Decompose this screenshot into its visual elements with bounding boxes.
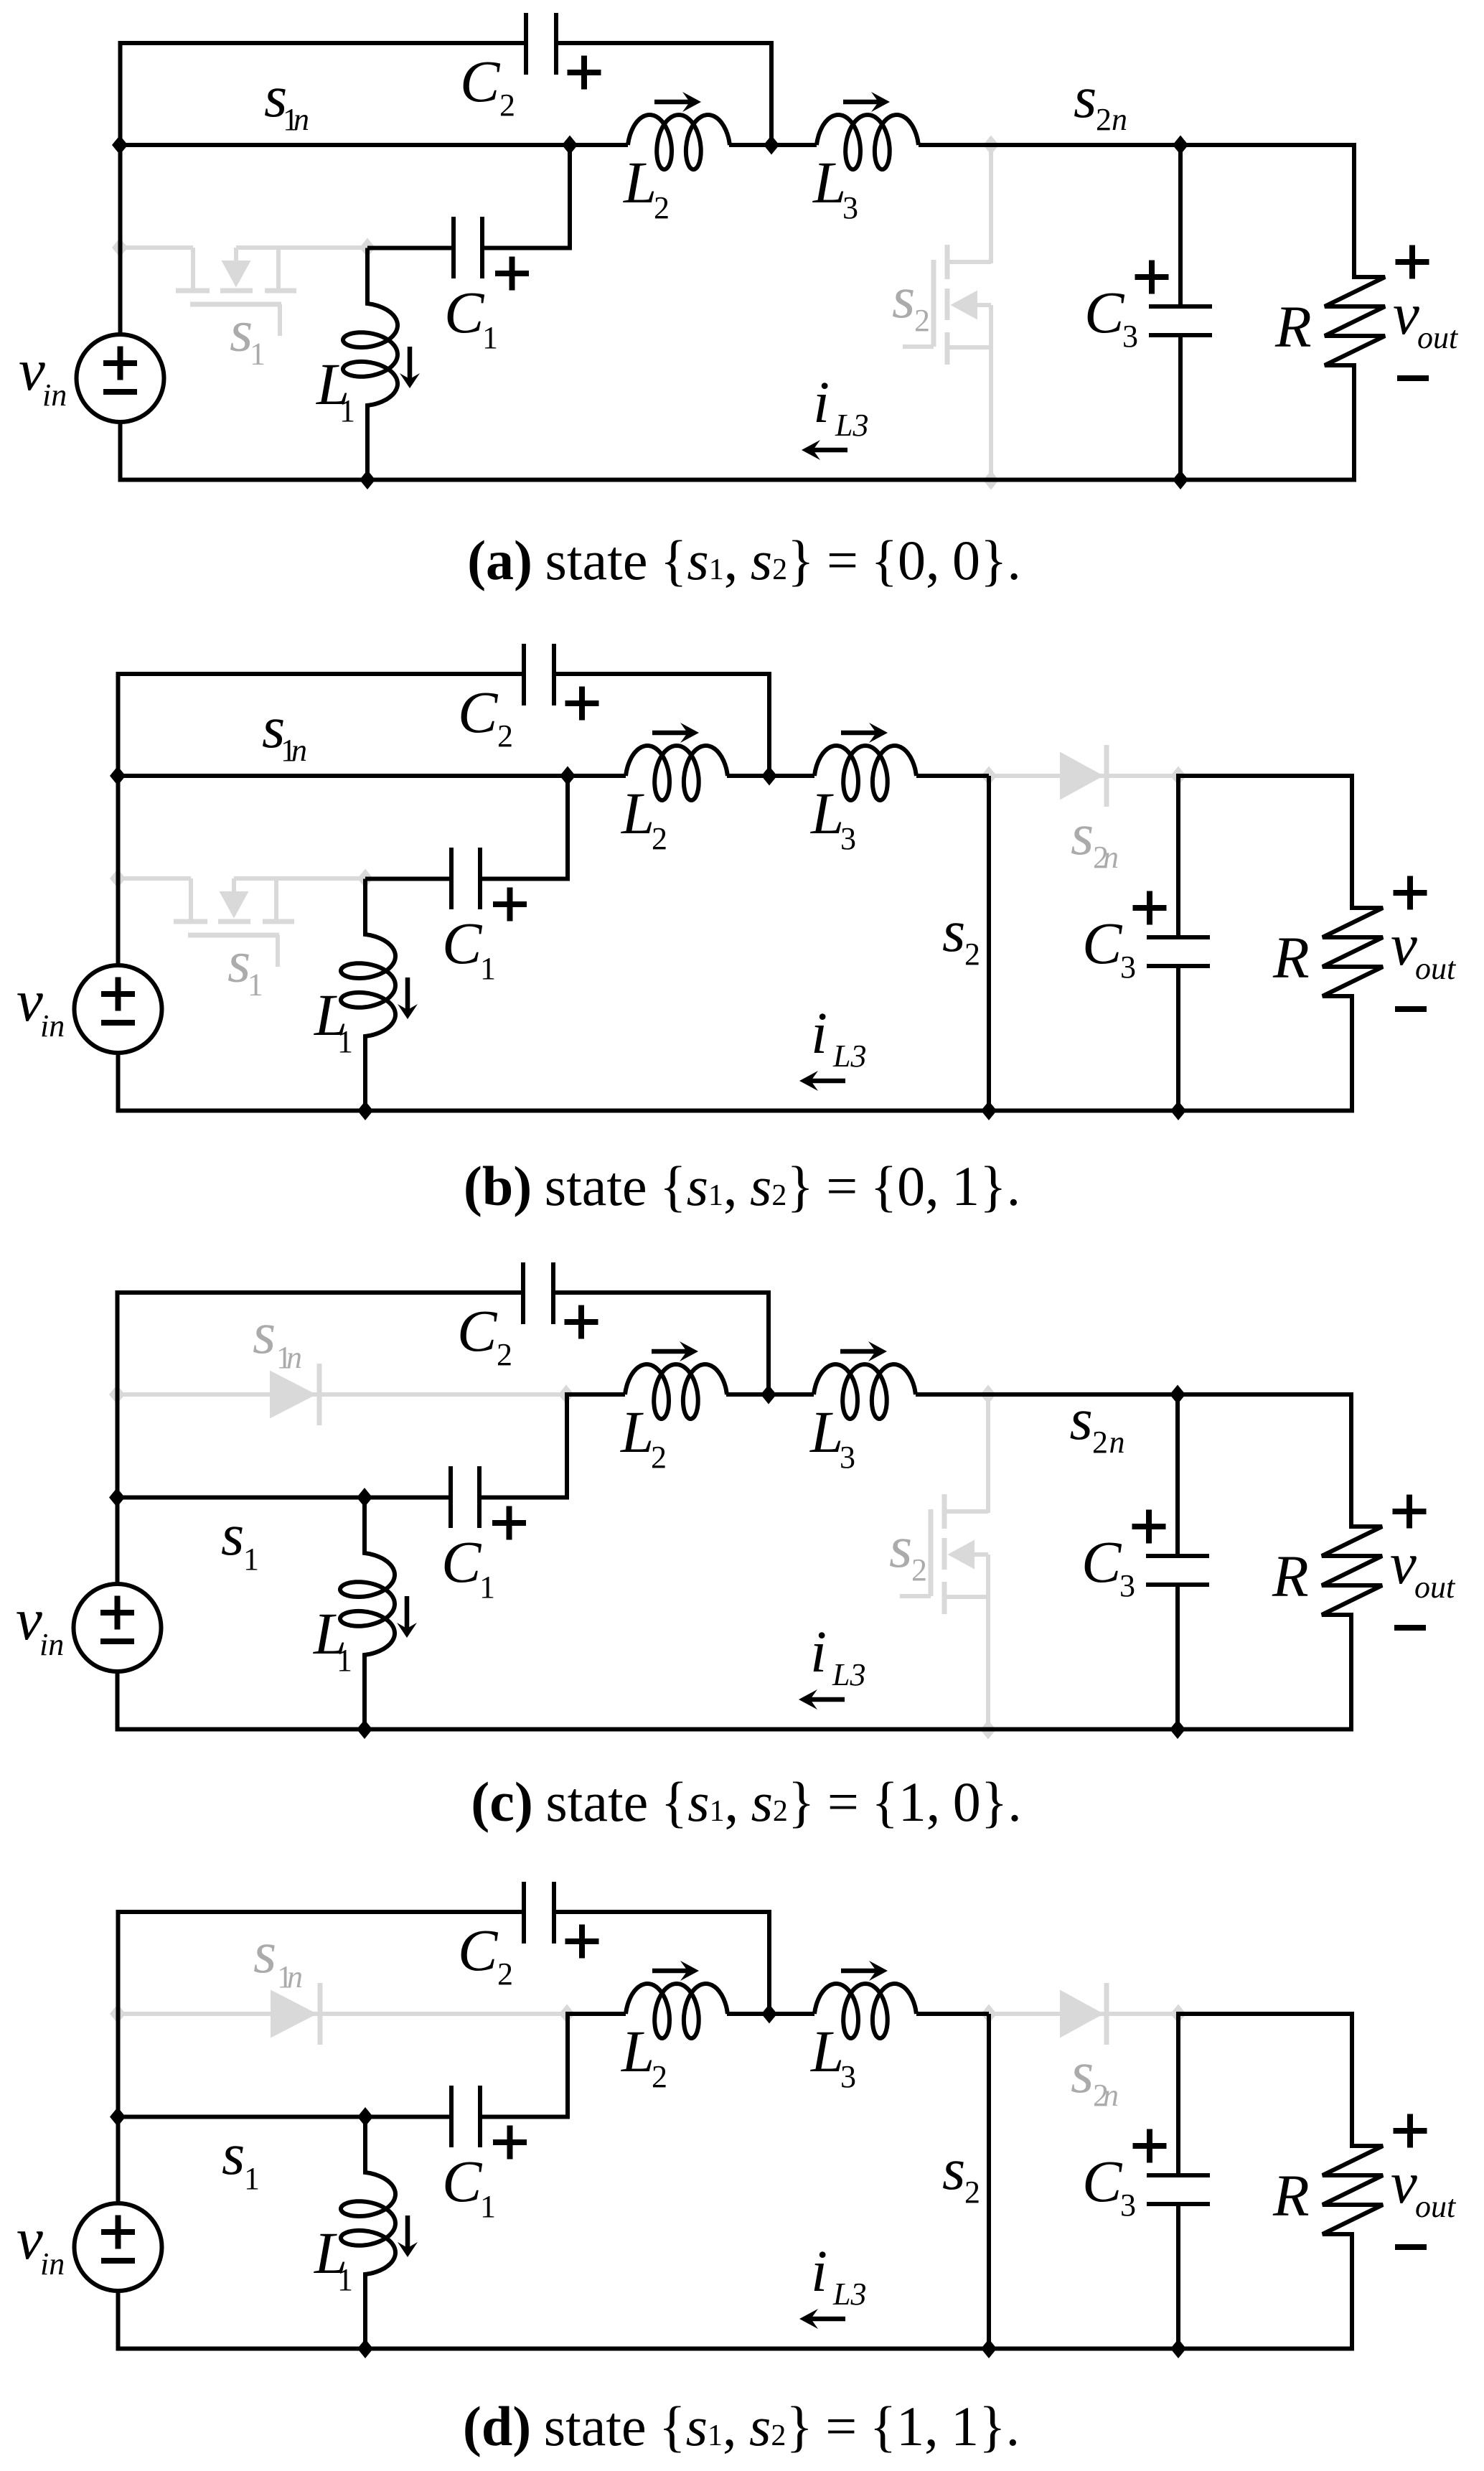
label s1 (grey)	[230, 298, 266, 372]
polarity + of C3	[1132, 1524, 1166, 1529]
svg-text:1: 1	[337, 2262, 353, 2297]
polarity + of C3	[1135, 274, 1169, 280]
current arrow of L2	[652, 731, 689, 736]
label s2	[942, 898, 980, 972]
label C1	[444, 279, 498, 355]
wire: left vertical below source	[118, 422, 123, 480]
svg-text:s: s	[1071, 2039, 1094, 2105]
label C2	[460, 48, 515, 123]
label s2n	[1074, 64, 1127, 137]
wire s1 (switch closed)	[118, 2115, 365, 2119]
svg-text:1: 1	[479, 1570, 495, 1605]
label s1n	[262, 694, 307, 768]
wire: top wire right segment + drop to L2/L3 node	[553, 1293, 769, 1394]
svg-text:(c) state {s1, s2} = {1, 0}.: (c) state {s1, s2} = {1, 0}.	[471, 1771, 1021, 1833]
capacitor C1	[451, 2086, 480, 2147]
capacitor C1	[451, 848, 480, 909]
polarity + of C1	[495, 271, 529, 276]
svg-text:L: L	[623, 149, 657, 215]
svg-text:2: 2	[652, 821, 667, 856]
svg-text:L: L	[810, 780, 844, 846]
capacitor C1	[451, 1466, 479, 1528]
node: top-wire/L2/L3 junction	[761, 766, 777, 786]
node: s2 drain junction (grey)	[983, 136, 999, 155]
svg-text:R: R	[1272, 924, 1310, 990]
capacitor C2	[524, 644, 554, 705]
polarity + of C1	[492, 1520, 526, 1526]
svg-text:n: n	[1112, 102, 1127, 137]
capacitor C3	[1146, 1392, 1209, 1730]
label s1	[221, 1501, 259, 1577]
wire: C1 right lead + riser to rail	[479, 1394, 625, 1498]
voltage source vin	[75, 2203, 162, 2291]
node: s1 wire left junction	[110, 2107, 126, 2127]
current arrow of L1	[405, 2216, 410, 2249]
current arrow iL3	[812, 448, 847, 453]
svg-text:3: 3	[840, 1440, 855, 1475]
current arrow iL3	[809, 1079, 845, 1084]
svg-text:s: s	[942, 898, 965, 964]
transistor s2 (grey MOSFET, off)	[903, 145, 991, 480]
wire: L3 to s2 node	[919, 143, 991, 147]
svg-text:C: C	[458, 679, 499, 745]
inductor L2	[626, 1984, 728, 2038]
wire s2n rail (grey)	[989, 2012, 1178, 2016]
capacitor C2	[526, 13, 556, 75]
svg-text:i: i	[811, 2238, 827, 2304]
svg-text:(d) state {s1, s2} = {1, 1}.: (d) state {s1, s2} = {1, 1}.	[463, 2395, 1020, 2457]
node: C1 riser/rail junction	[560, 766, 576, 786]
node: rail/left vertical junction	[110, 766, 126, 786]
label vin	[17, 2205, 65, 2282]
svg-text:s: s	[1070, 1386, 1093, 1452]
label s1n (grey)	[253, 1919, 303, 1994]
current arrow iL3	[809, 1697, 845, 1702]
node: C3/rail junction	[1173, 136, 1188, 155]
polarity + of C2	[565, 1938, 599, 1944]
wire: C1 right lead + riser to rail	[482, 145, 628, 248]
node: C3/rail junction	[1170, 1385, 1185, 1405]
node: s2n cathode junction (grey)	[1170, 766, 1186, 786]
label s2n (grey)	[1071, 2039, 1119, 2113]
svg-text:C: C	[1084, 279, 1125, 345]
label s2 (grey)	[892, 264, 930, 338]
label L3	[810, 2018, 856, 2094]
label vout	[1393, 281, 1459, 355]
label C2	[457, 1298, 512, 1372]
current arrow of L3	[843, 100, 880, 105]
svg-text:3: 3	[840, 2059, 856, 2094]
svg-text:1: 1	[250, 337, 266, 372]
label C1	[441, 1529, 495, 1605]
capacitor C3	[1149, 143, 1212, 480]
svg-text:L: L	[621, 780, 654, 846]
node: C3 bottom junction	[1170, 1101, 1186, 1120]
svg-text:L3: L3	[832, 1657, 865, 1692]
node: top-wire/L2/L3 junction	[761, 2005, 777, 2024]
transistor s2 (grey MOSFET, off)	[900, 1394, 988, 1730]
node: s2n anode junction (grey)	[981, 766, 997, 786]
wire: left vertical below source	[116, 1053, 121, 1111]
svg-text:1: 1	[337, 1643, 352, 1678]
svg-text:n: n	[291, 733, 307, 768]
svg-text:out: out	[1415, 2189, 1457, 2224]
polarity + of C3	[1133, 905, 1167, 911]
label s1n	[264, 63, 309, 137]
svg-text:i: i	[811, 1000, 827, 1066]
svg-text:2: 2	[1092, 1425, 1108, 1460]
current arrow of L1	[405, 1596, 410, 1630]
svg-text:s: s	[222, 2121, 245, 2187]
resistor R	[1322, 1394, 1382, 1730]
voltage source vin	[74, 1584, 161, 1671]
svg-text:n: n	[1103, 840, 1119, 875]
svg-text:L: L	[809, 1399, 843, 1465]
label C1	[442, 2148, 496, 2224]
svg-text:1: 1	[337, 1024, 353, 1059]
diode s2n (grey, off)	[1060, 1983, 1107, 2045]
svg-text:L: L	[621, 2018, 654, 2084]
node: s1 drain junction (grey)	[110, 869, 126, 888]
node: C1 riser/rail junction	[562, 136, 578, 155]
label iL3	[811, 2238, 866, 2312]
polarity - of vout	[1395, 1006, 1427, 1012]
node: s1n anode junction (grey)	[109, 1385, 125, 1405]
node: L1/C1/s1 junction	[357, 1488, 372, 1507]
wire: bottom rail	[118, 478, 1357, 482]
label C3	[1082, 910, 1136, 985]
label C3	[1082, 2148, 1136, 2223]
node: s1 source junction (grey)	[357, 869, 373, 888]
label s1 (grey)	[227, 929, 263, 1003]
current arrow iL3	[809, 2317, 845, 2322]
polarity + of C1	[493, 901, 527, 907]
svg-text:2: 2	[964, 2175, 980, 2210]
wire: left vertical below source	[116, 1671, 120, 1730]
inductor L3	[814, 1364, 916, 1419]
node: s1 wire left junction	[109, 1488, 125, 1507]
wire: L2 to L3	[726, 1392, 814, 1397]
resistor R	[1325, 145, 1385, 480]
svg-text:s: s	[892, 264, 915, 330]
label iL3	[813, 369, 868, 443]
inductor L1	[343, 248, 398, 480]
node: s2n anode junction (grey)	[981, 2005, 997, 2024]
node: s2 bottom junction	[981, 1101, 997, 1120]
label L3	[810, 780, 856, 856]
svg-text:3: 3	[1119, 1568, 1135, 1603]
current arrow of L2	[654, 100, 691, 105]
svg-text:v: v	[1391, 2149, 1417, 2216]
wire: C1 left lead	[365, 2115, 451, 2119]
wire: L2 to L3	[727, 774, 814, 778]
wire: L3 to s2 node	[916, 2012, 989, 2016]
svg-text:2: 2	[1096, 102, 1112, 137]
label L2	[621, 2018, 667, 2094]
node: C3 bottom junction	[1170, 2339, 1186, 2358]
label vout	[1391, 2149, 1457, 2224]
wire: s1n rail (conducting)	[118, 774, 568, 778]
label vin	[17, 967, 65, 1044]
svg-text:3: 3	[1122, 319, 1138, 354]
inductor L2	[626, 746, 728, 800]
node: s1n cathode junction (grey)	[559, 2005, 575, 2024]
polarity + of C2	[565, 700, 599, 706]
label iL3	[811, 1000, 866, 1074]
wire: C1 left lead	[365, 1496, 451, 1500]
wire: L2 to L3	[729, 143, 817, 147]
wire: left vertical + top wire left segment	[121, 43, 527, 334]
label vin	[19, 337, 67, 413]
svg-text:C: C	[1081, 1529, 1122, 1595]
polarity - of vout	[1395, 2244, 1427, 2250]
node: s1n cathode junction (grey)	[558, 1385, 574, 1405]
svg-text:out: out	[1417, 320, 1459, 355]
wire: s2n rail (conducting)	[988, 1392, 1178, 1397]
node: L1 bottom junction	[357, 1720, 372, 1739]
capacitor C1	[454, 217, 482, 278]
current arrow of L2	[652, 1969, 689, 1974]
wire: bottom rail	[116, 1109, 1355, 1113]
svg-text:s: s	[253, 1300, 276, 1366]
wire: top wire right segment + drop to L2/L3 node	[554, 674, 769, 776]
svg-text:n: n	[293, 102, 309, 137]
current arrow of L3	[840, 1349, 877, 1354]
wire: s1n rail (conducting)	[120, 143, 570, 147]
svg-text:2: 2	[497, 718, 513, 754]
svg-text:v: v	[19, 337, 45, 403]
svg-text:C: C	[1082, 2148, 1123, 2214]
label L3	[812, 149, 858, 225]
node: s2 bottom junction	[981, 2339, 997, 2358]
label s2 (grey)	[889, 1514, 927, 1588]
label vout	[1391, 911, 1457, 986]
inductor L1	[341, 879, 395, 1111]
label C3	[1081, 1529, 1135, 1603]
svg-text:out: out	[1415, 951, 1457, 986]
svg-text:2: 2	[964, 937, 980, 972]
wire: top wire right segment + drop to L2/L3 node	[556, 43, 771, 145]
svg-text:n: n	[287, 1959, 303, 1994]
svg-text:1: 1	[339, 393, 355, 428]
svg-text:1: 1	[480, 2189, 496, 2224]
node: C3 bottom junction	[1170, 1720, 1185, 1739]
svg-text:(a) state {s1, s2} = {0, 0}.: (a) state {s1, s2} = {0, 0}.	[467, 529, 1021, 591]
transistor s1 (grey MOSFET, off)	[118, 878, 365, 967]
svg-text:3: 3	[1120, 2188, 1136, 2223]
wire: s2n rail (conducting)	[991, 143, 1180, 147]
wire: bottom rail	[116, 2347, 1355, 2351]
capacitor C2	[524, 1882, 554, 1943]
svg-text:i: i	[810, 1618, 827, 1684]
svg-text:L3: L3	[832, 1038, 866, 1074]
wire: rail to R branch	[1178, 2012, 1354, 2016]
label C2	[458, 1917, 513, 1992]
diode s2n (grey, off)	[1060, 745, 1107, 807]
transistor s1 (grey MOSFET, off)	[120, 248, 367, 336]
node: s2 source junction (grey)	[983, 471, 999, 490]
polarity + of C3	[1133, 2143, 1167, 2149]
label s1n (grey)	[253, 1300, 302, 1375]
label L2	[620, 1399, 667, 1475]
wire s2 (switch closed)	[987, 776, 991, 1111]
node: s1 drain junction (grey)	[112, 238, 128, 258]
svg-text:2: 2	[654, 190, 670, 225]
wire s1n rail (grey)	[118, 2012, 568, 2016]
svg-text:L3: L3	[835, 408, 868, 443]
label L3	[809, 1399, 855, 1475]
diode s1n (grey, off)	[270, 1364, 319, 1425]
svg-text:i: i	[813, 369, 830, 435]
wire: rail to R branch	[1180, 143, 1356, 147]
svg-text:1: 1	[243, 1542, 259, 1577]
svg-text:s: s	[221, 1501, 244, 1567]
svg-text:2: 2	[497, 1956, 513, 1992]
svg-text:v: v	[17, 2205, 43, 2271]
svg-text:n: n	[286, 1340, 302, 1375]
wire: left vertical below source	[116, 2291, 121, 2349]
svg-text:C: C	[460, 48, 501, 114]
inductor L3	[814, 746, 916, 800]
polarity + of vout	[1393, 1509, 1427, 1514]
current arrow of L2	[652, 1349, 688, 1354]
svg-text:in: in	[40, 1008, 65, 1044]
inductor L3	[817, 115, 919, 169]
polarity + of vout	[1394, 2128, 1427, 2134]
svg-text:1: 1	[248, 967, 263, 1003]
voltage source vin	[75, 965, 162, 1053]
svg-text:2: 2	[497, 1337, 512, 1372]
svg-text:L: L	[812, 149, 846, 215]
capacitor C3	[1147, 774, 1210, 1111]
label L1	[314, 2220, 353, 2297]
svg-text:out: out	[1414, 1570, 1456, 1605]
svg-text:v: v	[1390, 1530, 1417, 1596]
node: L1 bottom junction	[357, 1101, 373, 1120]
svg-text:1: 1	[480, 951, 496, 986]
wire: C1 left lead	[367, 246, 454, 250]
svg-text:s: s	[253, 1919, 276, 1985]
wire s2 (switch closed)	[987, 2014, 991, 2349]
node: s1n anode junction (grey)	[110, 2005, 126, 2024]
label s2	[942, 2136, 980, 2210]
label L1	[314, 982, 353, 1059]
polarity + of C1	[493, 2139, 527, 2145]
svg-text:s: s	[889, 1514, 912, 1580]
svg-text:s: s	[942, 2136, 965, 2202]
node: top-wire/L2/L3 junction	[764, 136, 779, 155]
polarity + of vout	[1394, 890, 1427, 896]
svg-text:C: C	[442, 910, 483, 976]
inductor L1	[341, 2117, 395, 2349]
svg-text:C: C	[444, 279, 485, 345]
label C1	[442, 910, 496, 986]
label iL3	[810, 1618, 865, 1692]
wire s1 (switch closed)	[117, 1496, 365, 1500]
polarity - of vout	[1397, 375, 1429, 381]
label L2	[623, 149, 670, 225]
current arrow of L1	[405, 977, 410, 1011]
svg-text:C: C	[1082, 910, 1123, 976]
wire: left vertical + top wire left segment	[118, 1912, 525, 2203]
node: L1/C1/s1 junction	[357, 2107, 373, 2127]
node: top-wire/L2/L3 junction	[761, 1385, 776, 1405]
label C3	[1084, 279, 1138, 354]
inductor L1	[340, 1498, 395, 1730]
label L1	[313, 1600, 352, 1678]
capacitor C3	[1147, 2012, 1210, 2349]
svg-text:(b) state {s1, s2} = {0, 1}.: (b) state {s1, s2} = {0, 1}.	[464, 1155, 1020, 1217]
wire s2n rail (grey)	[989, 774, 1178, 778]
svg-text:C: C	[441, 1529, 482, 1595]
capacitor C2	[523, 1262, 553, 1324]
svg-text:s: s	[1074, 64, 1096, 130]
svg-text:in: in	[40, 2246, 65, 2282]
svg-text:L: L	[620, 1399, 654, 1465]
current arrow of L1	[408, 347, 413, 380]
svg-text:v: v	[1391, 911, 1417, 977]
svg-text:3: 3	[842, 190, 858, 225]
svg-text:2: 2	[651, 1440, 667, 1475]
wire: C1 right lead + riser to rail	[480, 776, 626, 879]
svg-text:C: C	[442, 2148, 483, 2214]
wire: C1 left lead	[365, 877, 451, 881]
label s2n	[1070, 1386, 1125, 1460]
node: rail/left vertical junction	[112, 136, 128, 155]
node: s2 drain junction (grey)	[980, 1385, 996, 1405]
resistor R	[1323, 776, 1383, 1111]
label s1	[222, 2121, 260, 2196]
label L1	[316, 351, 355, 428]
wire: left vertical + top wire left segment	[118, 1293, 524, 1584]
voltage source vin	[77, 334, 164, 422]
node: s2 source junction (grey)	[980, 1720, 996, 1740]
node: s1 source junction (grey)	[360, 238, 375, 258]
polarity - of vout	[1394, 1625, 1426, 1631]
label vin	[16, 1586, 64, 1662]
svg-text:R: R	[1272, 1543, 1309, 1609]
svg-text:3: 3	[1120, 950, 1136, 985]
wire: rail to R branch	[1178, 1392, 1353, 1397]
wire: L3 to s2 node	[916, 1392, 988, 1397]
node: s2n cathode junction (grey)	[1170, 2005, 1186, 2024]
wire: rail to R branch	[1178, 774, 1354, 778]
svg-text:2: 2	[499, 88, 515, 123]
resistor R	[1323, 2014, 1383, 2349]
wire: L3 to s2 node	[916, 774, 989, 778]
current arrow of L3	[841, 731, 878, 736]
svg-text:C: C	[458, 1917, 499, 1983]
inductor L3	[814, 1984, 916, 2038]
polarity + of vout	[1396, 259, 1429, 265]
svg-text:3: 3	[840, 821, 856, 856]
wire: top wire right segment + drop to L2/L3 node	[554, 1912, 769, 2014]
node: L1 bottom junction	[360, 470, 375, 489]
wire s1n rail (grey)	[117, 1392, 567, 1397]
inductor L2	[625, 1364, 727, 1419]
svg-text:v: v	[17, 967, 43, 1033]
current arrow of L3	[841, 1969, 878, 1974]
diode s1n (grey, off)	[271, 1983, 320, 2045]
svg-text:1: 1	[482, 320, 498, 355]
wire: bottom rail	[116, 1727, 1354, 1732]
node: L1 bottom junction	[357, 2339, 373, 2358]
svg-text:in: in	[42, 378, 67, 413]
svg-text:v: v	[1393, 281, 1419, 347]
svg-text:in: in	[39, 1627, 64, 1662]
svg-text:L: L	[810, 2018, 844, 2084]
polarity + of C2	[565, 1319, 598, 1325]
